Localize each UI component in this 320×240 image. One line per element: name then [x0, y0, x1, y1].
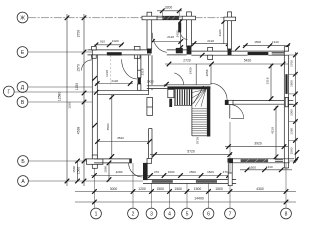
dim 3520	[95, 136, 152, 144]
svg-text:1560: 1560	[77, 167, 81, 175]
wall end box at Б	[147, 158, 152, 163]
window 1500 wall Е right dark	[248, 52, 269, 55]
pier stubs wall Е left	[92, 46, 140, 58]
svg-text:1150: 1150	[75, 83, 79, 90]
extension line axis 3	[151, 183, 153, 208]
wall Б right	[229, 159, 294, 163]
svg-text:1500: 1500	[189, 170, 196, 174]
axis А line	[29, 180, 143, 182]
svg-text:3: 3	[150, 211, 153, 217]
svg-text:470: 470	[223, 170, 228, 174]
stair winder left edge	[191, 89, 193, 106]
chimney cross B	[182, 12, 195, 55]
dim right outer column	[290, 52, 298, 163]
door arc bay right	[181, 32, 188, 39]
svg-text:4500: 4500	[106, 123, 110, 130]
svg-text:1060: 1060	[290, 109, 294, 116]
door leaf on wall В	[229, 104, 231, 118]
dim 4500 vertical	[106, 95, 114, 159]
dim vertical 1560 left of Б-А	[72, 159, 80, 184]
svg-text:5420: 5420	[244, 58, 252, 62]
wall Г interior	[97, 90, 148, 94]
dim 2120 room upper left	[95, 79, 133, 86]
dim 2720 + 5420 row	[165, 58, 288, 66]
bottom axis circle 5	[182, 208, 193, 219]
wall bay bottom	[167, 49, 187, 51]
door arc corridor	[122, 59, 138, 79]
door jamb dark on wall В	[225, 100, 233, 104]
dim 2420 right vertical	[218, 19, 226, 43]
axis circle Е	[17, 47, 28, 58]
dark corner piece wall Б	[228, 158, 234, 162]
wall Д stair top thick	[164, 84, 210, 86]
svg-text:2720: 2720	[183, 59, 191, 63]
svg-text:1500: 1500	[168, 170, 175, 174]
extension line axis 8	[285, 163, 287, 208]
wall В stub beyond right wall	[285, 97, 293, 106]
door arc Б left	[129, 163, 143, 177]
svg-text:1500: 1500	[290, 80, 294, 87]
dim 2120 bay right	[192, 39, 231, 46]
svg-text:2420: 2420	[189, 67, 193, 74]
svg-text:2700: 2700	[77, 30, 81, 38]
svg-text:1500: 1500	[174, 187, 182, 191]
wall stub right below Б	[288, 163, 290, 168]
svg-text:Г: Г	[7, 89, 10, 95]
dim row 4280 + window dims over wall А	[91, 170, 232, 178]
bottom axis circle 8	[281, 208, 292, 219]
dim 910 / 1020 windows wall Е left	[94, 39, 124, 47]
svg-text:2420: 2420	[147, 80, 154, 84]
svg-text:2: 2	[132, 211, 135, 217]
svg-text:1200: 1200	[138, 187, 146, 191]
wall stair left small	[168, 89, 174, 97]
dim 4218 vertical	[270, 106, 278, 159]
wall А bottom	[143, 180, 236, 184]
wall bay left vertical	[147, 55, 154, 163]
stair lower flight	[192, 109, 207, 133]
pier stubs wall Е right	[200, 47, 289, 60]
wall Б left	[94, 159, 132, 163]
bottom axis circle 4	[164, 208, 175, 219]
stair winder fan	[192, 90, 206, 107]
dim 3200 top window	[157, 6, 182, 17]
right extension stubs	[289, 55, 298, 161]
wall Ж bay top	[157, 16, 182, 20]
pier plus on wall А	[228, 173, 232, 186]
dim 5720 row	[150, 149, 232, 157]
svg-text:4218: 4218	[270, 127, 274, 134]
stair lower flight bottom edge	[192, 135, 207, 137]
svg-text:2120: 2120	[111, 79, 118, 83]
door arc stair exit	[210, 83, 227, 100]
extension line axis 7	[229, 122, 231, 208]
window 1310 wall Б	[275, 160, 283, 162]
axis В line	[28, 101, 92, 103]
dim row overall 14400	[75, 197, 296, 205]
svg-text:1: 1	[95, 211, 98, 217]
door arc entry west	[82, 60, 93, 71]
svg-text:1310: 1310	[266, 165, 273, 169]
svg-text:5718: 5718	[195, 137, 199, 144]
svg-text:4538: 4538	[77, 127, 81, 135]
axis Б line	[29, 160, 93, 162]
axis circle Г	[3, 86, 14, 97]
svg-text:2120: 2120	[167, 35, 174, 39]
dim vertical 1560 inner	[103, 161, 111, 182]
corner tick upper right	[295, 150, 300, 155]
wall hall-left middle segment	[147, 98, 153, 116]
axis Ж line	[28, 17, 224, 19]
door arc on wall В	[230, 105, 244, 119]
svg-text:1150: 1150	[67, 102, 71, 109]
axis Г line	[14, 91, 97, 93]
extension line axis 4	[169, 183, 171, 208]
window east wall dark	[285, 74, 287, 94]
svg-text:1560: 1560	[290, 147, 294, 154]
axis circle Б	[18, 156, 29, 167]
svg-text:5720: 5720	[187, 149, 195, 153]
stair direction arrow	[194, 86, 204, 104]
extension line axis 1	[93, 168, 95, 209]
window wall Е left dark	[107, 52, 122, 55]
wall stair right thick	[207, 86, 210, 136]
svg-text:470: 470	[154, 170, 159, 174]
stair upper flight bottom edge	[174, 104, 192, 106]
wall stub Г to Д	[149, 89, 152, 95]
dim 2258 vertical	[189, 64, 211, 85]
tick Г axis at wall	[94, 90, 99, 95]
door leaf bay right	[178, 23, 181, 33]
wall Д thin left part	[147, 86, 168, 89]
door arc stair hall	[174, 73, 184, 85]
svg-text:14400: 14400	[194, 197, 204, 201]
window А east dark	[196, 180, 217, 183]
dashed line partition	[110, 55, 112, 86]
chimney cross C	[224, 12, 236, 55]
wall hall-left lower segment	[148, 129, 150, 159]
door arc bay left	[152, 33, 167, 53]
tick on west wall upper	[93, 76, 98, 81]
tick on west wall lower	[93, 123, 98, 128]
svg-text:3920: 3920	[254, 141, 262, 145]
wall east right wing	[284, 51, 288, 168]
axis circle А	[18, 176, 29, 187]
svg-text:910: 910	[100, 39, 105, 43]
svg-text:1360: 1360	[290, 128, 294, 135]
svg-text:1760: 1760	[290, 60, 294, 67]
svg-text:1500: 1500	[254, 40, 261, 44]
bottom axis circle 7	[225, 208, 236, 219]
bottom axis circle 2	[128, 208, 139, 219]
svg-text:1500: 1500	[194, 187, 202, 191]
axis circle Д	[17, 82, 28, 93]
chimney cross A	[142, 12, 157, 53]
svg-text:1500: 1500	[249, 165, 256, 169]
svg-text:3000: 3000	[110, 187, 118, 191]
svg-text:1310: 1310	[272, 40, 279, 44]
dark pier bay bottom	[176, 48, 183, 53]
wall west left wing	[92, 50, 97, 157]
stair upper flight treads	[175, 89, 192, 105]
axis circle В	[17, 97, 28, 108]
corner tick Б right	[294, 157, 299, 162]
dim column overall 12580	[57, 14, 71, 186]
svg-text:5: 5	[186, 211, 189, 217]
dim 3920 row	[225, 141, 288, 149]
svg-text:1318: 1318	[105, 70, 109, 77]
extension line axis 5	[186, 183, 188, 208]
svg-text:8: 8	[285, 211, 288, 217]
svg-text:4280: 4280	[116, 170, 123, 174]
tick on wall Е right	[235, 46, 240, 51]
axis circle Ж	[17, 12, 28, 23]
window 1310 wall Е right	[272, 53, 285, 54]
svg-text:3318: 3318	[265, 77, 269, 84]
bottom axis circle 1	[91, 208, 102, 219]
wall В right	[233, 101, 284, 105]
svg-text:1500: 1500	[207, 170, 214, 174]
svg-text:1500: 1500	[215, 187, 223, 191]
svg-text:Ж: Ж	[20, 15, 25, 21]
svg-text:1020: 1020	[112, 39, 119, 43]
svg-text:7: 7	[229, 211, 232, 217]
dim 2120 bay left	[150, 35, 183, 44]
dim 1500 / 1310 windows wall Е right	[243, 40, 290, 48]
dim row windows wall Б right	[240, 165, 292, 172]
svg-text:6: 6	[207, 211, 210, 217]
dim row axis segments	[75, 187, 296, 194]
stair lower flight left edge	[191, 107, 193, 136]
dim 2420 bay left vertical	[175, 19, 183, 50]
bottom axis circle 3	[146, 208, 157, 219]
extension line axis 6	[208, 183, 210, 208]
wall step right А-Б	[228, 163, 232, 173]
svg-text:2258: 2258	[205, 69, 209, 76]
svg-text:3200: 3200	[165, 6, 173, 10]
bottom axis circle 6	[203, 208, 214, 219]
axis Е line	[28, 51, 92, 53]
svg-text:3520: 3520	[117, 136, 124, 140]
svg-text:4300: 4300	[256, 187, 264, 191]
dim 3318 vertical	[265, 64, 273, 101]
svg-text:1500: 1500	[157, 187, 165, 191]
svg-text:1560: 1560	[103, 166, 107, 173]
svg-text:2420: 2420	[218, 29, 222, 36]
pier plus bottom-left	[87, 155, 103, 168]
window А west dark	[152, 180, 173, 183]
wall Е left wing	[88, 50, 151, 55]
window 3200 hatched	[162, 16, 179, 19]
svg-text:12580: 12580	[57, 92, 61, 101]
svg-text:1570: 1570	[77, 64, 81, 72]
dim column axis segments left	[75, 14, 86, 186]
axis Д line	[28, 86, 92, 88]
wall step left dark	[143, 163, 148, 180]
wall partition left wing	[138, 55, 141, 90]
svg-text:1560: 1560	[72, 166, 76, 173]
window 1500 wall Б dark	[241, 159, 269, 162]
svg-text:4: 4	[168, 211, 171, 217]
svg-text:2120: 2120	[207, 39, 214, 43]
wall Е right wing	[191, 51, 288, 55]
extension line axis 2	[132, 163, 134, 208]
